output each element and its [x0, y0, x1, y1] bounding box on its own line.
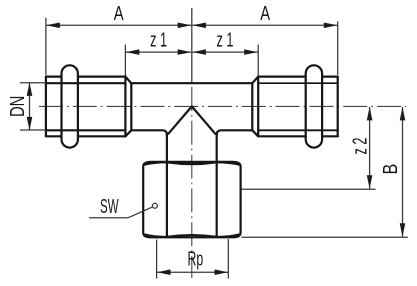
DN extension bottom [20, 129, 45, 131]
A right arrowheads [192, 23, 206, 29]
B arrowheads [400, 107, 406, 121]
hex bottom middle chamfer arc [167, 235, 217, 237]
branch neck right line [216, 135, 218, 237]
SW leader underline [89, 217, 128, 219]
left press bead [62, 65, 78, 147]
SW leader slant [128, 207, 153, 218]
tube bottom right with fillet [217, 130, 253, 135]
right sleeve end face [337, 77, 339, 137]
hex top middle chamfer arc [167, 162, 217, 164]
z1 right dimension line [192, 51, 257, 53]
z1 left arrowheads [126, 49, 139, 55]
left sleeve end face [45, 77, 47, 137]
Rp left extension [156, 240, 158, 279]
hex top left chamfer arc [145, 162, 167, 164]
left sleeve outer top [46, 75, 126, 77]
left cone edge [130, 83, 132, 130]
z2 dimension line [369, 107, 371, 189]
junction V left [168, 106, 192, 133]
center extension line [191, 8, 193, 83]
hex bottom right chamfer arc [217, 235, 239, 237]
Rp arrowheads [157, 269, 171, 275]
Rp dimension line [157, 271, 228, 273]
hex nut outline [143, 162, 240, 237]
svg-text:z 1: z 1 [150, 28, 167, 51]
DN arrowheads [27, 82, 33, 96]
svg-text:B: B [378, 164, 401, 175]
B bottom extension [242, 236, 409, 238]
dimension z1 left extension [124, 45, 126, 76]
svg-text:A: A [260, 2, 270, 25]
right sleeve step face [257, 77, 259, 137]
right cone edge [251, 83, 253, 130]
right press bead [306, 65, 322, 147]
dimension z1 right extension [257, 45, 259, 76]
svg-text:z 2: z 2 [348, 138, 371, 155]
right bore bottom line [258, 129, 338, 131]
dimension A right extension [337, 21, 339, 75]
dimension A left extension [45, 18, 47, 75]
hex top right chamfer arc [217, 162, 239, 164]
left cone top slant [125, 77, 131, 84]
z2 arrowheads [367, 107, 373, 121]
z1 left dimension line [126, 51, 191, 53]
A right dimension line [192, 24, 337, 26]
DN extension top [20, 82, 45, 84]
left bore bottom line [46, 129, 126, 131]
right cone top slant [252, 77, 258, 84]
svg-text:z 1: z 1 [217, 28, 234, 51]
tube bottom left with fillet [131, 130, 167, 135]
B dimension line [402, 107, 404, 237]
vertical centerline of branch [191, 87, 193, 278]
right bore top line [258, 82, 338, 84]
z2 bottom extension [242, 188, 376, 190]
A left dimension line [46, 24, 191, 26]
tube top line [131, 82, 252, 84]
svg-text:A: A [114, 2, 124, 25]
svg-text:SW: SW [100, 194, 119, 217]
left bore top line [46, 82, 126, 84]
svg-text:Rp: Rp [187, 247, 203, 270]
z1 right arrowheads [192, 49, 206, 55]
left sleeve outer bottom [46, 135, 126, 137]
A left arrowheads [46, 23, 60, 29]
left sleeve step face [124, 77, 126, 137]
right sleeve outer bottom [258, 135, 338, 137]
DN dimension line [29, 83, 31, 130]
junction V right [192, 106, 216, 133]
hex bottom left chamfer arc [145, 235, 167, 237]
right sleeve outer top [258, 75, 338, 77]
left cone bottom slant [125, 130, 131, 136]
SW leader dot [152, 203, 157, 208]
horizontal centerline [39, 105, 406, 107]
branch neck left line [166, 135, 168, 237]
Rp right extension [227, 239, 229, 279]
right cone bottom slant [252, 130, 258, 136]
svg-text:DN: DN [5, 96, 28, 117]
